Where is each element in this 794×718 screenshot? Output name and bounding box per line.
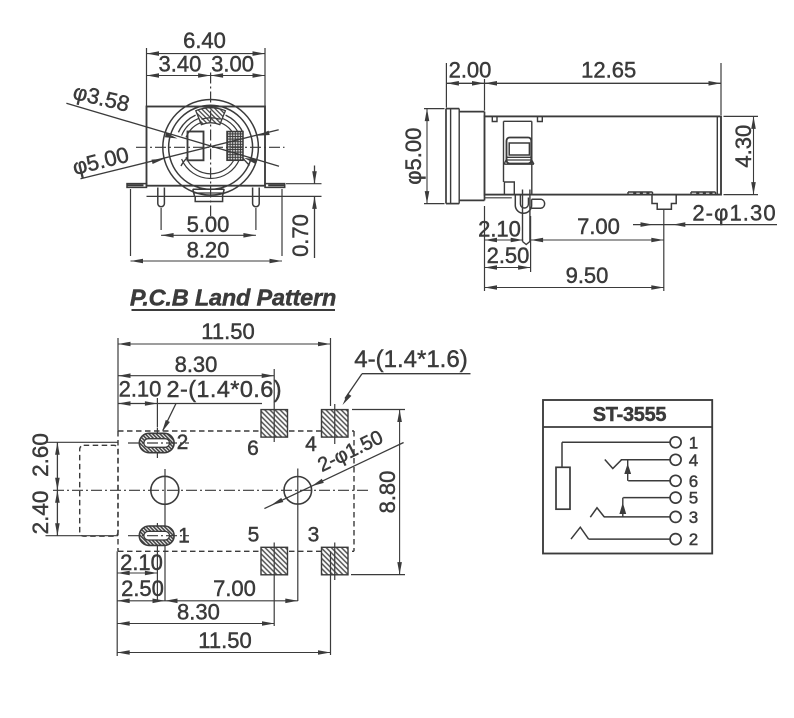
svg-text:8.80: 8.80 [375,471,400,514]
svg-text:3: 3 [308,524,320,547]
svg-text:6: 6 [247,437,259,460]
svg-text:4: 4 [305,433,317,456]
svg-text:φ5.00: φ5.00 [401,128,426,185]
svg-text:2.60: 2.60 [28,433,53,477]
svg-text:2: 2 [689,530,698,549]
svg-text:12.65: 12.65 [581,57,636,82]
svg-text:2.40: 2.40 [28,491,53,535]
svg-text:3: 3 [689,508,698,527]
svg-text:2-(1.4*0.6): 2-(1.4*0.6) [167,376,282,402]
svg-text:7.00: 7.00 [577,214,620,239]
svg-text:4-(1.4*1.6): 4-(1.4*1.6) [354,346,467,373]
svg-text:8.20: 8.20 [187,237,230,262]
svg-text:5.00: 5.00 [187,212,230,237]
svg-text:8.30: 8.30 [177,600,220,625]
svg-text:0.70: 0.70 [288,214,313,257]
svg-text:4.30: 4.30 [731,125,756,168]
svg-text:2.10: 2.10 [478,217,521,242]
svg-text:2.10: 2.10 [120,550,163,575]
svg-text:2-φ1.30: 2-φ1.30 [692,200,776,225]
svg-text:9.50: 9.50 [566,263,609,288]
svg-text:2.10: 2.10 [119,376,162,401]
svg-text:11.50: 11.50 [198,628,251,653]
svg-text:3.00: 3.00 [211,52,254,77]
svg-text:2.50: 2.50 [121,576,164,601]
svg-text:2: 2 [177,431,189,454]
svg-text:11.50: 11.50 [201,319,254,344]
svg-text:5: 5 [689,489,698,508]
svg-text:ST-3555: ST-3555 [593,404,667,426]
svg-text:2.00: 2.00 [449,57,492,82]
svg-text:1: 1 [689,433,698,452]
svg-text:P.C.B Land Pattern: P.C.B Land Pattern [130,284,336,310]
svg-text:3.40: 3.40 [158,52,201,77]
svg-text:8.30: 8.30 [175,352,218,377]
svg-text:2.50: 2.50 [487,243,530,268]
svg-text:1: 1 [178,525,190,548]
svg-text:6.40: 6.40 [183,28,226,53]
svg-text:5: 5 [248,524,260,547]
svg-text:4: 4 [689,451,698,470]
svg-text:7.00: 7.00 [213,576,256,601]
